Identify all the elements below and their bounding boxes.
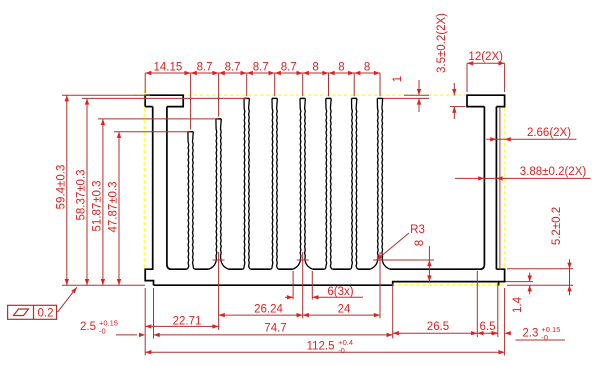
svg-text:-0: -0 [99, 327, 106, 336]
dimension 22.71 [145, 325, 218, 327]
svg-text:5.2±0.2: 5.2±0.2 [551, 207, 563, 245]
svg-text:112.5: 112.5 [307, 341, 335, 353]
top dimension chain line [145, 72, 380, 74]
svg-text:1.4: 1.4 [512, 296, 524, 313]
extension line y=95.2 left [62, 94, 150, 96]
svg-text:R3: R3 [410, 224, 425, 236]
dimension 6(3x) (slot mouth) [292, 271, 294, 300]
svg-text:0.2: 0.2 [38, 307, 54, 319]
extension lines bottom left [144, 288, 146, 356]
svg-text:8.7: 8.7 [281, 62, 297, 74]
fin 8 [350, 98, 352, 269]
svg-text:14.15: 14.15 [154, 62, 183, 74]
dimension 24 [303, 314, 380, 316]
dimension 58.37±0.3 [86, 98, 88, 285]
svg-text:3.5±0.2(2X): 3.5±0.2(2X) [436, 13, 448, 73]
leader R3 (bell fillet radius) [377, 233, 410, 260]
dimension 2.3 +0.4/-0 [490, 332, 498, 334]
svg-text:8.7: 8.7 [197, 62, 213, 74]
svg-text:-0: -0 [541, 333, 548, 342]
dimension 47.87±0.3 [118, 132, 120, 286]
fin 5 [270, 98, 272, 269]
extension line y=98.4 [82, 97, 247, 99]
dimension 59.4±0.3 [66, 95, 68, 285]
svg-text:8: 8 [414, 240, 426, 246]
dimension 112.5 +0.4/-0 [145, 351, 504, 353]
dimension 2.5 +0.15/-0 [116, 334, 137, 336]
dimension 51.87±0.3 [102, 119, 104, 285]
svg-text:59.4±0.3: 59.4±0.3 [55, 165, 67, 210]
svg-text:8.7: 8.7 [253, 62, 269, 74]
svg-text:47.87±0.3: 47.87±0.3 [108, 181, 120, 232]
svg-text:26.5: 26.5 [427, 321, 449, 333]
extension line right mid [499, 107, 501, 270]
dimension 12(2X) (cap width) [467, 62, 505, 64]
bottom reference extension (left) [62, 284, 145, 286]
fin 3 with screw-slot bell [209, 119, 217, 269]
extension line y=131.7 [114, 131, 191, 133]
dimension 8 (slot depth) [373, 259, 434, 261]
base plate bottom edge [154, 269, 505, 285]
dimension 3.5±0.2(2X) (cap thickness) [453, 83, 455, 95]
svg-text:6(3x): 6(3x) [327, 286, 353, 298]
svg-text:12(2X): 12(2X) [468, 51, 503, 63]
svg-text:2.5: 2.5 [80, 321, 96, 333]
dimension 1.4 (groove depth) [506, 281, 534, 283]
svg-text:8.7: 8.7 [225, 62, 241, 74]
bottom right small step [498, 282, 500, 286]
svg-text:26.24: 26.24 [254, 304, 283, 316]
fin 4 [242, 98, 244, 269]
datum line top (yellow dashed) [134, 94, 467, 96]
dimension 5.2±0.2 (base thickness) [507, 268, 573, 270]
bell centerlines [218, 252, 220, 330]
extension line y=118.9 [98, 118, 219, 120]
dimension 6.5 [477, 332, 498, 334]
svg-text:8: 8 [312, 62, 318, 74]
fin 2 [186, 132, 188, 270]
svg-text:58.37±0.3: 58.37±0.3 [76, 169, 88, 220]
svg-text:8: 8 [338, 62, 344, 74]
dimension 26.24 [219, 314, 303, 316]
svg-text:3.88±0.2(2X): 3.88±0.2(2X) [520, 166, 587, 178]
svg-text:6.5: 6.5 [480, 321, 496, 333]
left T-fin cap bottom-left segment [145, 106, 153, 108]
dimension 2.66(2X) (stem to edge) [486, 138, 576, 140]
flatness leader [57, 311, 58, 313]
svg-text:8: 8 [364, 62, 370, 74]
dimension 26.5 [393, 332, 478, 334]
svg-text:2.66(2X): 2.66(2X) [527, 127, 571, 139]
fin 7 [324, 98, 326, 269]
svg-text:24: 24 [338, 304, 351, 316]
bell centerline cross ticks [213, 259, 225, 261]
extension line x=477.3 [476, 271, 478, 337]
svg-text:51.87±0.3: 51.87±0.3 [91, 180, 103, 231]
heatsink left T-fin cap [145, 95, 183, 106]
right T-fin stem [480, 107, 485, 270]
dimension 1 (cap vs fin top) [404, 94, 429, 96]
svg-text:-0: -0 [338, 346, 345, 355]
datum line bottom right (yellow dashed) [398, 284, 504, 286]
heatsink right T-fin cap [467, 95, 505, 106]
svg-text:22.71: 22.71 [173, 316, 202, 328]
flatness tolerance frame 0.2 [8, 305, 57, 319]
extension lines for 2.3 [497, 283, 499, 337]
top chain arrowheads [145, 71, 151, 75]
svg-text:2.3: 2.3 [522, 328, 538, 340]
fin 9 with screw-slot bell [370, 98, 378, 269]
dimension 74.7 [154, 334, 393, 336]
svg-text:1: 1 [392, 76, 404, 82]
datum line left edge (yellow dashed) [143, 90, 145, 270]
dimension 3.88±0.2(2X) (stem thickness) [455, 177, 591, 179]
datum line right edge (yellow dashed) [504, 107, 506, 269]
top chain extension lines [144, 73, 146, 93]
fin 6 with screw-slot bell [293, 98, 301, 269]
svg-text:74.7: 74.7 [264, 323, 286, 335]
base top surface segments [171, 268, 480, 270]
left T-fin stem [145, 107, 153, 286]
